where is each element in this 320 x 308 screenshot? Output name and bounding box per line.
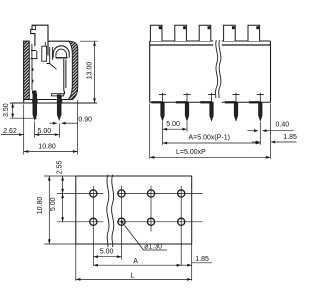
- svg-text:0.40: 0.40: [276, 122, 290, 129]
- dimension 5.00 (row pitch): [61, 194, 64, 222]
- footprint row centerline 2: [57, 221, 203, 223]
- left view solder pin 1: [33, 95, 37, 120]
- dimension 2.62 (edge to pin1): [1, 105, 35, 155]
- dimension A (footprint): [93, 258, 181, 266]
- drill hole r2c1: [90, 218, 97, 225]
- svg-text:⌀1.30: ⌀1.30: [144, 244, 162, 251]
- left side-section view: outer body: [24, 41, 69, 103]
- dimension 10.80 (footprint height): [37, 176, 76, 244]
- front view pin 2: [176, 93, 191, 121]
- label 5.00 row pitch: [50, 197, 57, 211]
- front view lever bump 1: [150, 25, 162, 41]
- footprint column centerline 1: [92, 186, 94, 266]
- dimension A=5.00x(P-1): [163, 122, 261, 145]
- dimension 1.85 (last pin to edge, front): [252, 134, 297, 144]
- front view pin 1: [151, 93, 166, 121]
- dimension L=5.00xP: [150, 104, 271, 159]
- front view body: [150, 41, 271, 102]
- drill hole r2c4: [178, 218, 185, 225]
- dimension 3.50 (pin length below base): [3, 103, 37, 118]
- dimension L (footprint length): [76, 244, 192, 281]
- svg-text:2.62: 2.62: [3, 128, 17, 135]
- footprint rectangle: [76, 176, 192, 244]
- footprint column centerline 3: [150, 186, 152, 232]
- drill hole r1c3: [147, 190, 154, 197]
- drill hole r1c2: [118, 190, 125, 197]
- drill hole r1c1: [90, 190, 97, 197]
- drill hole r2c2: [118, 218, 125, 225]
- dimension 0.90 (pin thickness): [50, 100, 93, 155]
- svg-text:10.80: 10.80: [37, 197, 44, 215]
- svg-text:3.50: 3.50: [3, 103, 10, 117]
- svg-text:5.00: 5.00: [100, 249, 114, 256]
- svg-text:5.00: 5.00: [50, 197, 57, 211]
- left wall hatched: [24, 41, 30, 99]
- dimension 0.40 (pin thickness front): [248, 122, 294, 133]
- svg-text:0.90: 0.90: [78, 117, 92, 124]
- left view solder pin 2: [57, 95, 61, 120]
- svg-text:5.00: 5.00: [38, 128, 52, 135]
- front view pin 5: [249, 93, 264, 121]
- body bottom wall and baseline: [10, 100, 97, 104]
- front view lever bump 4: [224, 25, 236, 41]
- svg-text:1.85: 1.85: [283, 134, 297, 141]
- footprint column centerline 2: [121, 186, 123, 259]
- svg-text:A: A: [133, 258, 138, 265]
- footprint column centerline 4: [180, 186, 182, 266]
- front view break gap: [213, 40, 222, 104]
- dimension 5.00 (left view pin pitch): [35, 124, 60, 138]
- wire-entry dome (double arch): [53, 46, 69, 58]
- dimension 5.00 (column pitch): [93, 249, 121, 259]
- front view pin 4: [225, 93, 240, 121]
- footprint break gap: [104, 177, 118, 243]
- svg-text:L: L: [131, 272, 135, 279]
- svg-text:A=5.00x(P-1): A=5.00x(P-1): [189, 135, 230, 142]
- dimension 13.00 (left view height): [80, 41, 98, 103]
- svg-text:2.55: 2.55: [57, 160, 64, 174]
- dimension 5.00 (front pitch): [163, 121, 188, 145]
- right wall hatched (curved): [69, 41, 78, 99]
- front view break lines: [215, 40, 220, 98]
- footprint row centerline 1: [57, 193, 203, 195]
- dimension 2.55 (top edge to row1): [57, 160, 64, 193]
- svg-text:5.00: 5.00: [166, 121, 180, 128]
- front view pin 3: [200, 93, 215, 121]
- internal clamp mechanism: [31, 44, 68, 99]
- front view lever bump 5: [248, 25, 260, 41]
- svg-text:1.85: 1.85: [195, 256, 209, 263]
- front view lever bump 3: [199, 25, 211, 41]
- dimension 10.80 (left view depth): [24, 144, 78, 153]
- drill hole r2c3: [147, 218, 154, 225]
- actuation lever on top: [31, 25, 48, 55]
- svg-text:10.80: 10.80: [38, 144, 56, 151]
- svg-text:13.00: 13.00: [86, 62, 93, 80]
- svg-text:L=5.00xP: L=5.00xP: [176, 149, 206, 156]
- front view lever bump 2: [175, 25, 187, 41]
- footprint break lines: [107, 175, 114, 247]
- hole diameter callout 1.30: [120, 220, 167, 251]
- drill hole r1c4: [178, 190, 185, 197]
- dimension 1.85 (footprint right): [181, 256, 212, 267]
